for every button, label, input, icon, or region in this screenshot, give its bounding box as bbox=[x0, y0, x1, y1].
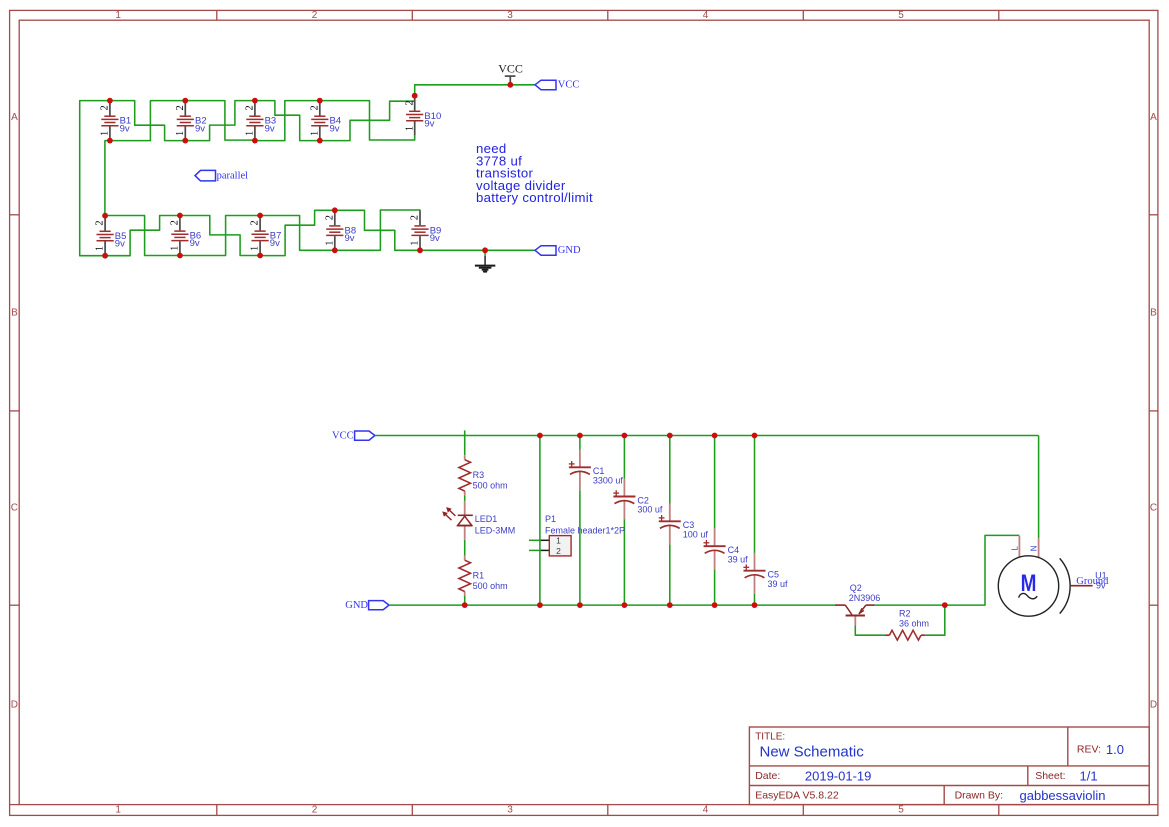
wire LED1 to R1 bbox=[464, 540, 466, 556]
svg-text:Drawn By:: Drawn By: bbox=[955, 789, 1003, 801]
svg-text:TITLE:: TITLE: bbox=[755, 732, 785, 743]
wire GND rail bbox=[389, 604, 835, 606]
wire B1 top to left rail down to B5 bottom bbox=[80, 101, 110, 256]
wire C3 to GND rail bbox=[669, 544, 671, 605]
svg-text:C: C bbox=[1150, 503, 1157, 514]
wire VCC rail to C3 bbox=[669, 436, 671, 504]
svg-text:GND: GND bbox=[345, 600, 368, 611]
junction dot bbox=[257, 213, 263, 219]
power flag VCC bbox=[498, 61, 523, 85]
wire N drop from VCC rail bbox=[1038, 436, 1040, 539]
resistor R2 bbox=[885, 609, 929, 641]
svg-text:5: 5 bbox=[898, 10, 904, 21]
junction dot bbox=[182, 138, 188, 144]
connector P1 bbox=[541, 514, 625, 556]
svg-text:1.0: 1.0 bbox=[1106, 742, 1124, 757]
junction dot bbox=[317, 98, 323, 104]
svg-text:Ground: Ground bbox=[1076, 576, 1109, 587]
junction dot bbox=[417, 247, 423, 253]
svg-text:R2: R2 bbox=[899, 609, 911, 619]
svg-text:2: 2 bbox=[170, 220, 181, 225]
junction dot bbox=[752, 602, 758, 608]
capacitor C1 bbox=[569, 450, 624, 491]
wire P1 pin1 stub bbox=[529, 539, 541, 541]
wire VCC rail bbox=[375, 435, 1039, 437]
battery B10 bbox=[404, 96, 441, 136]
svg-text:4: 4 bbox=[703, 10, 709, 21]
junction dot bbox=[177, 213, 183, 219]
battery B8 bbox=[324, 210, 356, 250]
wire B2 bottom to B3 top bbox=[185, 101, 255, 141]
svg-text:LED-3MM: LED-3MM bbox=[475, 525, 516, 535]
svg-text:9v: 9v bbox=[345, 233, 355, 244]
junction dot bbox=[577, 602, 583, 608]
svg-text:Q2: Q2 bbox=[850, 583, 862, 593]
junction dot bbox=[667, 433, 673, 439]
capacitor C5 bbox=[743, 553, 788, 594]
wire B2 top to B3 bottom bbox=[185, 101, 255, 141]
junction dot bbox=[577, 433, 583, 439]
junction dot bbox=[107, 138, 113, 144]
battery B1 bbox=[100, 101, 132, 141]
wire VCC to GND through P1 column bbox=[539, 436, 541, 606]
resistor R3 bbox=[459, 455, 508, 495]
junction dot bbox=[752, 433, 758, 439]
capacitor C2 bbox=[613, 479, 663, 520]
net flag GND (rail) bbox=[345, 600, 389, 611]
junction dot bbox=[332, 247, 338, 253]
svg-text:1: 1 bbox=[115, 805, 121, 816]
svg-text:1/1: 1/1 bbox=[1080, 769, 1098, 784]
svg-text:VCC: VCC bbox=[498, 61, 523, 75]
svg-text:300 uf: 300 uf bbox=[637, 505, 663, 515]
svg-text:500 ohm: 500 ohm bbox=[473, 481, 508, 491]
battery B9 bbox=[410, 210, 442, 250]
svg-text:2N3906: 2N3906 bbox=[849, 593, 881, 603]
wire B1 bottom to B2 top bbox=[110, 101, 185, 141]
svg-text:2: 2 bbox=[312, 805, 318, 816]
svg-text:gabbessaviolin: gabbessaviolin bbox=[1020, 788, 1106, 803]
svg-text:9v: 9v bbox=[270, 238, 280, 249]
svg-text:1: 1 bbox=[410, 241, 421, 246]
wire R1 to GND rail bbox=[464, 596, 466, 606]
wire R2 to collector node bbox=[925, 605, 945, 635]
svg-text:1: 1 bbox=[175, 131, 186, 136]
capacitor C3 bbox=[659, 504, 709, 545]
svg-text:Female header1*2P: Female header1*2P bbox=[545, 525, 625, 535]
wire B1 bottom to B5 top bbox=[105, 141, 110, 216]
wire B5 top to B6 bottom bbox=[105, 216, 180, 256]
svg-text:R1: R1 bbox=[473, 571, 485, 581]
wire B4 top to B10 bottom bbox=[320, 101, 415, 140]
svg-text:LED1: LED1 bbox=[475, 514, 498, 524]
battery B2 bbox=[175, 101, 207, 141]
svg-text:2: 2 bbox=[175, 105, 186, 110]
wire VCC rail to C5 bbox=[754, 436, 756, 553]
svg-text:New Schematic: New Schematic bbox=[760, 743, 865, 760]
note text bbox=[476, 141, 593, 205]
junction dot bbox=[177, 253, 183, 259]
svg-text:4: 4 bbox=[703, 805, 709, 816]
title block bbox=[749, 727, 1149, 805]
svg-text:1: 1 bbox=[324, 241, 335, 246]
svg-text:2: 2 bbox=[556, 546, 561, 556]
junction dot bbox=[712, 433, 718, 439]
svg-text:A: A bbox=[11, 112, 18, 123]
junction dot bbox=[182, 98, 188, 104]
svg-text:B: B bbox=[11, 307, 18, 318]
wire B9 bottom to GND flag bbox=[420, 249, 535, 251]
svg-text:parallel: parallel bbox=[217, 171, 249, 182]
svg-text:39 uf: 39 uf bbox=[728, 554, 749, 564]
svg-text:L: L bbox=[1010, 546, 1019, 551]
wire B3 top to B4 bottom bbox=[255, 101, 320, 141]
svg-text:Date:: Date: bbox=[755, 770, 780, 782]
svg-text:5: 5 bbox=[898, 805, 904, 816]
wire Q2 collector to motor L bbox=[875, 535, 1020, 605]
junction dot bbox=[537, 433, 543, 439]
wire B7 bottom to B8 top bbox=[260, 210, 335, 255]
svg-text:500 ohm: 500 ohm bbox=[473, 581, 508, 591]
svg-text:VCC: VCC bbox=[332, 430, 354, 441]
svg-text:9v: 9v bbox=[120, 123, 130, 134]
junction dot bbox=[622, 602, 628, 608]
svg-text:9v: 9v bbox=[330, 123, 340, 134]
svg-text:1: 1 bbox=[245, 131, 256, 136]
junction dot bbox=[537, 602, 543, 608]
LED LED1 bbox=[443, 501, 516, 540]
svg-text:D: D bbox=[1150, 699, 1157, 710]
svg-text:2: 2 bbox=[309, 105, 320, 110]
junction dot bbox=[622, 433, 628, 439]
net flag VCC (rail) bbox=[332, 430, 375, 441]
svg-text:1: 1 bbox=[404, 126, 415, 131]
wire B10 top to VCC flag bbox=[415, 85, 535, 96]
wire B3 bottom to B4 top bbox=[255, 101, 320, 141]
svg-text:1: 1 bbox=[309, 131, 320, 136]
ground symbol bbox=[475, 250, 495, 271]
net flag VCC (top) bbox=[535, 80, 579, 91]
svg-text:1: 1 bbox=[170, 246, 181, 251]
svg-text:C: C bbox=[11, 503, 18, 514]
svg-text:D: D bbox=[11, 699, 18, 710]
svg-text:N: N bbox=[1030, 545, 1039, 551]
wire C4 to GND rail bbox=[714, 569, 716, 605]
svg-text:9v: 9v bbox=[424, 118, 434, 129]
junction dot bbox=[332, 207, 338, 213]
svg-text:100 uf: 100 uf bbox=[683, 530, 709, 540]
svg-text:1: 1 bbox=[556, 536, 561, 546]
svg-text:1: 1 bbox=[115, 10, 121, 21]
svg-text:2: 2 bbox=[324, 215, 335, 220]
battery B5 bbox=[95, 216, 127, 256]
resistor R1 bbox=[459, 556, 508, 596]
battery B7 bbox=[250, 216, 282, 256]
junction dot bbox=[462, 602, 468, 608]
svg-text:2: 2 bbox=[312, 10, 318, 21]
junction dot bbox=[102, 213, 108, 219]
junction dot bbox=[252, 98, 258, 104]
svg-text:2: 2 bbox=[100, 105, 111, 110]
wire B8 top to B9 bottom bbox=[335, 210, 420, 250]
svg-text:2: 2 bbox=[95, 221, 106, 226]
svg-text:REV:: REV: bbox=[1077, 744, 1101, 756]
svg-text:battery control/limit: battery control/limit bbox=[476, 190, 593, 205]
svg-text:39 uf: 39 uf bbox=[768, 579, 789, 589]
junction dot bbox=[257, 253, 263, 259]
svg-text:A: A bbox=[1150, 112, 1157, 123]
wire P1 pin2 stub bbox=[529, 549, 541, 551]
svg-text:3: 3 bbox=[507, 805, 513, 816]
wire VCC rail to C2 bbox=[623, 436, 625, 479]
wire C2 to GND rail bbox=[623, 520, 625, 606]
junction dot bbox=[482, 247, 488, 253]
svg-text:GND: GND bbox=[558, 245, 581, 256]
wire B4 bottom to B10 top bbox=[320, 96, 415, 141]
wire B6 top to B7 bottom bbox=[180, 216, 260, 256]
wire R3 branch stub bbox=[464, 430, 466, 455]
battery B4 bbox=[309, 101, 341, 141]
wire C1 to GND rail bbox=[579, 490, 581, 605]
svg-text:R3: R3 bbox=[473, 470, 485, 480]
svg-text:2019-01-19: 2019-01-19 bbox=[805, 769, 872, 784]
wire Q2 base to R2 bbox=[855, 625, 885, 635]
junction dot bbox=[412, 93, 418, 99]
svg-text:1: 1 bbox=[95, 246, 106, 251]
svg-text:2: 2 bbox=[250, 220, 261, 225]
svg-text:2: 2 bbox=[404, 101, 415, 106]
junction dot bbox=[667, 602, 673, 608]
battery B3 bbox=[245, 101, 277, 141]
svg-text:9v: 9v bbox=[195, 123, 205, 134]
svg-text:9v: 9v bbox=[430, 233, 440, 244]
svg-text:36 ohm: 36 ohm bbox=[899, 619, 929, 629]
svg-text:1: 1 bbox=[100, 131, 111, 136]
capacitor C4 bbox=[704, 528, 749, 569]
junction dot bbox=[107, 98, 113, 104]
battery B6 bbox=[170, 216, 202, 256]
net flag parallel bbox=[195, 170, 248, 181]
wire VCC rail to C4 bbox=[714, 436, 716, 529]
wire C5 to GND rail bbox=[754, 594, 756, 605]
svg-text:1: 1 bbox=[250, 246, 261, 251]
svg-text:Sheet:: Sheet: bbox=[1035, 770, 1065, 782]
net flag GND (top) bbox=[535, 245, 581, 256]
junction dot bbox=[102, 253, 108, 259]
wire B5 bottom to B6 top bbox=[105, 216, 180, 256]
junction dot bbox=[507, 82, 513, 88]
wire R3 to LED1 bbox=[464, 495, 466, 501]
junction dot bbox=[712, 602, 718, 608]
svg-text:P1: P1 bbox=[545, 514, 556, 524]
svg-text:2: 2 bbox=[410, 215, 421, 220]
svg-text:9v: 9v bbox=[265, 123, 275, 134]
svg-text:3: 3 bbox=[507, 10, 513, 21]
svg-text:3300 uf: 3300 uf bbox=[593, 476, 624, 486]
svg-text:VCC: VCC bbox=[558, 80, 580, 91]
wire VCC rail to C1 bbox=[579, 436, 581, 450]
junction dot bbox=[252, 138, 258, 144]
junction dot bbox=[317, 138, 323, 144]
svg-text:EasyEDA V5.8.22: EasyEDA V5.8.22 bbox=[755, 789, 839, 801]
svg-text:9v: 9v bbox=[190, 238, 200, 249]
svg-text:B: B bbox=[1150, 307, 1157, 318]
wire B6 bottom to B7 top bbox=[180, 216, 260, 256]
wire B7 top to B8 bottom bbox=[260, 216, 335, 251]
wire B1 top to B2 bottom bbox=[110, 101, 185, 141]
svg-text:9v: 9v bbox=[115, 238, 125, 249]
transistor Q2 bbox=[835, 583, 880, 625]
junction dot bbox=[942, 602, 948, 608]
svg-text:2: 2 bbox=[245, 105, 256, 110]
wire B8 bottom to B9 top bbox=[335, 210, 420, 250]
motor U1 bbox=[998, 536, 1106, 616]
